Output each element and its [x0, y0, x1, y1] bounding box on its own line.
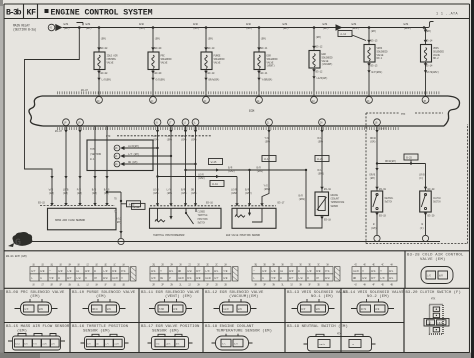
wire L/Y to TCM [125, 155, 172, 157]
TPS closed throttle switch [186, 208, 196, 224]
neutral switch box [371, 191, 383, 212]
wire LG/B(EM) to mass air flow sensor [65, 126, 67, 205]
svg-text:(EM): (EM) [64, 26, 70, 30]
svg-text:B3-15: B3-15 [38, 202, 45, 205]
svg-text:(EM): (EM) [96, 294, 106, 299]
svg-text:(EM): (EM) [318, 140, 324, 144]
connector drawing (2-pin oval) [421, 267, 453, 284]
solenoid coil symbol [205, 55, 207, 68]
thermistor symbol [318, 197, 325, 211]
svg-text:(EM): (EM) [77, 191, 83, 195]
svg-text:(EM): (EM) [208, 37, 214, 41]
svg-text:B/R: B/R [245, 188, 250, 192]
wire R/L(EM) to engine coolant temperature sensor [321, 126, 323, 192]
svg-text:B3-09: B3-09 [155, 47, 162, 50]
solenoid coil symbol [152, 55, 154, 68]
svg-text:DR/B: DR/B [370, 173, 376, 177]
arrow [184, 130, 187, 133]
svg-text:G/Y: G/Y [31, 269, 36, 273]
svg-text:W-1): W-1) [90, 157, 96, 161]
svg-text:L/R: L/R [307, 269, 312, 273]
ground joint connector pin [118, 238, 124, 244]
svg-text:(VACUUM): (VACUUM) [322, 62, 333, 66]
svg-text:B-3b: B-3b [6, 8, 22, 18]
solenoid coil symbol [258, 55, 260, 68]
connector mark and label B3-10 (bottom) [204, 71, 208, 74]
svg-text:LG/R: LG/R [223, 308, 229, 311]
svg-text:W/B: W/B [86, 22, 91, 26]
svg-text:W/R: W/R [49, 188, 54, 192]
svg-text:DR/B: DR/B [370, 136, 376, 140]
svg-text:(EM): (EM) [49, 191, 55, 195]
main relay feed arrow [55, 24, 62, 31]
connector ref box W-17 [262, 156, 276, 162]
wire return G/O(EM) to ECM [152, 70, 154, 97]
ECM pin 1P on bus bottom line [63, 119, 70, 126]
svg-text:LG/R: LG/R [153, 134, 159, 138]
solenoid valve B3-09 body [148, 52, 159, 70]
ECM bus right torn-edge squiggle [444, 96, 460, 126]
svg-text:(EM2): (EM2) [198, 176, 205, 180]
svg-text:(EM): (EM) [86, 26, 92, 30]
svg-text:BR/W: BR/W [92, 308, 98, 311]
svg-text:(EM): (EM) [116, 220, 122, 224]
svg-text:(EM): (EM) [181, 138, 187, 142]
scan corner top-left [0, 0, 3, 6]
svg-text:G/W: G/W [362, 276, 367, 280]
svg-text:LG/R(EM): LG/R(EM) [317, 76, 328, 80]
svg-text:(EM): (EM) [191, 191, 197, 195]
solenoid coil symbol [98, 55, 100, 68]
ECM connector 3X cells row1 [252, 267, 261, 274]
svg-text:(F): (F) [419, 176, 424, 180]
svg-text:EGR VALVE POSITION SENSOR: EGR VALVE POSITION SENSOR [226, 234, 261, 237]
svg-text:W/G: W/G [151, 269, 156, 273]
wire arrow [105, 176, 108, 179]
wire W/B power rail [63, 22, 434, 28]
wire L/Y(EM) bus to throttle position sensor [170, 126, 172, 206]
svg-text:VALVE: VALVE [107, 61, 114, 64]
junction to clutch switch branch [376, 162, 378, 164]
clutch switch box [420, 191, 432, 212]
svg-text:L/Y (EM): L/Y (EM) [128, 152, 139, 156]
wire drop to B3-13 VRIS SOLENOID VALVE NO.1 [368, 28, 370, 45]
svg-text:W/B: W/B [64, 22, 69, 26]
svg-text:L/O: L/O [205, 269, 210, 273]
wire B(F) to ground [425, 212, 427, 238]
svg-text:B3-07: B3-07 [379, 127, 386, 130]
svg-text:ENGINE CONTROL SYSTEM: ENGINE CONTROL SYSTEM [51, 9, 153, 18]
svg-text:COOLANT: COOLANT [331, 198, 340, 201]
connector mark and label B3-08 (bottom) [97, 71, 101, 74]
ECM pin 2N on bus bottom line [319, 119, 326, 126]
wire LG/R(EM) bus to throttle position sensor [157, 126, 159, 206]
svg-text:B3-11: B3-11 [261, 47, 268, 50]
return arrow [204, 78, 207, 81]
svg-text:(F): (F) [420, 226, 425, 230]
ECM connector 2X cells row2 [150, 274, 159, 281]
ECM pin 1J on bus bottom line [182, 119, 189, 126]
svg-text:LG/R(EM): LG/R(EM) [128, 144, 139, 148]
svg-text:G/R: G/R [58, 269, 63, 273]
connector mark and label B3-14 (top) [424, 40, 428, 43]
ECM bus top line [42, 95, 448, 97]
svg-text:THROTTLE POSITIONSENSOR: THROTTLE POSITIONSENSOR [153, 234, 185, 237]
svg-text:LG/R: LG/R [153, 188, 159, 192]
svg-text:B3-19: B3-19 [379, 215, 386, 218]
wire B(EM) to ground [376, 212, 378, 238]
wire DB(EM) bus to throttle position sensor [195, 126, 197, 206]
ECM pin 4D on bus top line [96, 97, 103, 104]
svg-text:W/B: W/B [323, 22, 328, 26]
wire arrow [93, 176, 96, 179]
svg-text:GY/B(EM2): GY/B(EM2) [427, 70, 440, 74]
ECM pin 4K on bus top line [366, 97, 373, 104]
svg-text:B/R: B/R [228, 166, 233, 170]
svg-text:B3-10: B3-10 [208, 72, 215, 75]
svg-text:R/G: R/G [187, 276, 192, 280]
svg-text:G/Y: G/Y [214, 276, 219, 280]
svg-text:LR/B: LR/B [419, 173, 425, 177]
connector mark and label B3-13 (bottom) [367, 63, 371, 66]
connector mark and label B3-11 (top) [257, 47, 261, 50]
svg-text:G/B: G/B [40, 269, 45, 273]
svg-text:TEMPERATURE: TEMPERATURE [331, 201, 345, 204]
svg-text:LB/R: LB/R [178, 276, 184, 280]
svg-text:W-25: W-25 [211, 161, 217, 164]
svg-text:B3-17: B3-17 [278, 201, 285, 204]
wire drop to B3-10 PURGE SOLENOID VALVE [205, 28, 207, 53]
connector mark and label B3-12 (top) [312, 46, 316, 49]
svg-text:(EM): (EM) [17, 328, 27, 333]
solenoid valve B3-12 body [309, 51, 320, 69]
svg-text:L/W: L/W [298, 276, 303, 280]
svg-text:SWITCH: SWITCH [433, 201, 441, 204]
svg-text:DR/B: DR/B [320, 343, 326, 346]
connector pin mark [194, 203, 197, 206]
svg-text:VALVE (EM): VALVE (EM) [420, 257, 445, 262]
connector mark and label B3-08 (top) [97, 47, 101, 50]
connector pin mark [184, 203, 187, 206]
TCM pin 2K [114, 145, 120, 151]
svg-text:W/B: W/B [246, 22, 251, 26]
svg-text:1 1 ..ATA: 1 1 ..ATA [436, 13, 458, 17]
rail junction dot [98, 26, 101, 29]
svg-text:W/B: W/B [196, 276, 201, 280]
wire B/R(EM2) branch [186, 169, 307, 171]
B3-15 MAF connector drawing [13, 336, 61, 350]
svg-text:SWITCH: SWITCH [385, 201, 393, 204]
svg-text:VALVE: VALVE [161, 61, 168, 64]
connector strip B3-17 [231, 205, 276, 207]
svg-text:LG/B: LG/B [63, 188, 69, 192]
svg-text:B3-10: B3-10 [208, 47, 215, 50]
ground joint pin [374, 235, 380, 241]
svg-text:G/R: G/R [262, 269, 267, 273]
rail junction dot [368, 26, 371, 29]
svg-text:B3-14: B3-14 [426, 64, 433, 67]
rail junction dot [152, 26, 155, 29]
svg-text:(EM2): (EM2) [318, 172, 325, 176]
svg-text:B3-20: B3-20 [428, 215, 435, 218]
svg-text:(EM): (EM) [323, 26, 329, 30]
svg-text:(EM): (EM) [101, 37, 107, 41]
svg-text:B/R: B/R [257, 166, 262, 170]
svg-text:W-24: W-24 [317, 158, 323, 161]
connector strip B3-16 [150, 205, 221, 207]
svg-text:B/R: B/R [92, 188, 97, 192]
svg-text:B3-16: B3-16 [206, 201, 213, 204]
svg-text:L/O: L/O [380, 276, 385, 280]
connector mark B3-18 bottom [320, 217, 323, 220]
B3-18 ECT connector drawing [216, 336, 249, 350]
wire B/R(EM) bus to throttle position sensor [185, 126, 187, 206]
wire B/R(EM) to mass air flow sensor [94, 126, 96, 205]
svg-text:(EM2): (EM2) [299, 197, 306, 201]
svg-text:L/B: L/B [67, 269, 72, 273]
ECM connector 1X cells row1 [30, 267, 39, 274]
svg-text:G/O(EM): G/O(EM) [156, 78, 166, 82]
svg-text:B-25: B-25 [406, 157, 412, 160]
connector ref box W-18 (left of TPS) [132, 203, 146, 209]
svg-text:(EM2): (EM2) [264, 187, 271, 191]
svg-text:B/Y: B/Y [289, 276, 294, 280]
box B3-28 cold air control valve [404, 251, 406, 288]
EGR pos potentiometer [235, 208, 250, 217]
svg-text:B3-07: B3-07 [81, 89, 88, 92]
svg-text:R/L: R/L [222, 343, 227, 346]
svg-text:POSITION: POSITION [198, 218, 209, 221]
svg-text:B3-13: B3-13 [371, 39, 378, 42]
ground symbol G [12, 232, 32, 246]
svg-text:LG/R: LG/R [198, 172, 204, 176]
wire return LG/R(EM) to ECM [313, 68, 315, 96]
svg-text:B3-08: B3-08 [101, 47, 108, 50]
connector mark and label B3-13 (top) [367, 40, 371, 43]
svg-text:Y/R: Y/R [271, 276, 276, 280]
svg-text:(EM): (EM) [155, 37, 161, 41]
svg-text:SWITCH: SWITCH [198, 221, 206, 224]
B3-17 EGR pos connector drawing [152, 337, 189, 350]
svg-text:(EM2): (EM2) [245, 191, 252, 195]
svg-text:(VENT): (VENT) [267, 64, 276, 68]
svg-text:MTX: MTX [401, 113, 406, 116]
rail junction dot [258, 26, 261, 29]
svg-text:(VENT) (EM): (VENT) (EM) [165, 294, 192, 299]
solenoid valve B3-14 body [421, 45, 432, 63]
ECM connector 2X cells row1 [150, 267, 159, 274]
connector pin mark [64, 203, 67, 206]
svg-text:(EM): (EM) [181, 191, 187, 195]
svg-text:LG/R: LG/R [231, 188, 237, 192]
svg-text:SENSOR (EM): SENSOR (EM) [83, 328, 110, 333]
connector ref box W-18b [210, 181, 224, 187]
svg-text:B3-08: B3-08 [101, 72, 108, 75]
svg-text:MASS AIR FLOW SENSOR: MASS AIR FLOW SENSOR [55, 219, 85, 222]
svg-text:(EM): (EM) [193, 26, 199, 30]
svg-text:B/P(EM2): B/P(EM2) [372, 70, 383, 74]
svg-text:(EM): (EM) [370, 140, 376, 144]
svg-text:ECM: ECM [249, 109, 254, 113]
svg-text:NEUTRAL: NEUTRAL [385, 197, 394, 200]
svg-text:(EM): (EM) [191, 138, 197, 142]
solenoid valve B3-08 body [94, 52, 105, 70]
ECM bus left torn-edge squiggle [29, 96, 43, 126]
separator line [4, 250, 470, 252]
connector ref box B-25 [404, 154, 418, 160]
rail junction dot [313, 26, 316, 29]
ECM pin 4F on bus top line [203, 97, 210, 104]
svg-text:(EM): (EM) [30, 294, 40, 299]
connector mark and label B3-12 (bottom) [312, 69, 316, 72]
svg-text:W/L: W/L [389, 276, 394, 280]
return arrow [312, 76, 315, 79]
TCM pin arrow [120, 162, 124, 166]
svg-text:Y/BR(EM): Y/BR(EM) [262, 78, 273, 82]
arrow + label [375, 168, 378, 171]
svg-text:(EM2): (EM2) [257, 169, 264, 173]
scan edge right black band [471, 0, 474, 358]
svg-text:B3-18: B3-18 [324, 188, 331, 191]
rail tick mark [77, 23, 84, 26]
svg-text:R/B: R/B [316, 269, 321, 273]
wire drop to B3-12 EGR SOLENOID VALVE (VACUUM) [313, 28, 315, 51]
svg-text:W-18: W-18 [212, 183, 218, 186]
ground joint pin [422, 235, 428, 241]
svg-text:W-17: W-17 [264, 158, 270, 161]
svg-text:LG/B: LG/B [205, 276, 211, 280]
solenoid coil symbol [313, 54, 315, 67]
TCM pin 2I [114, 153, 120, 159]
svg-text:W/B: W/B [283, 22, 288, 26]
connector mark and label B3-14 (bottom) [424, 63, 428, 66]
B3-16 TPS connector drawing [85, 337, 125, 350]
connector pin mark [156, 203, 159, 206]
svg-text:B3-15 MASS AIR FLOW SENSOR: B3-15 MASS AIR FLOW SENSOR [6, 325, 70, 329]
wire return Y/BR(EM) to ECM [258, 70, 260, 97]
svg-text:R/L: R/L [318, 136, 323, 140]
svg-text:CLOSED: CLOSED [198, 211, 206, 214]
svg-text:W/R: W/R [85, 269, 90, 273]
svg-text:B3-11: B3-11 [261, 72, 268, 75]
svg-text:(EM): (EM) [265, 140, 271, 144]
ECM pin 4E on bus top line [256, 97, 263, 104]
ECM pin 2L on bus bottom line [266, 119, 273, 126]
ground wire [30, 241, 440, 243]
TCM pin arrow [120, 146, 124, 150]
svg-text:B/W: B/W [103, 276, 108, 280]
svg-text:KF: KF [27, 9, 37, 18]
svg-text:B/Y: B/Y [67, 276, 72, 280]
wire return B/P(EM2) to ECM [368, 62, 370, 96]
rail junction dot [205, 26, 208, 29]
svg-text:W/L: W/L [214, 269, 219, 273]
wire DB to TCM [125, 163, 196, 165]
svg-text:BR/W(EM): BR/W(EM) [209, 78, 220, 82]
svg-text:G/W: G/W [187, 269, 192, 273]
svg-text:Y/G: Y/G [265, 136, 270, 140]
wire B/R(EM2) ECT ground return [306, 170, 322, 228]
svg-text:R/Y: R/Y [371, 276, 376, 280]
arrow [169, 130, 172, 133]
connector mark B3-18 top [320, 187, 323, 190]
wire arrow [78, 176, 81, 179]
connector pin mark [78, 203, 81, 206]
rail junction dot [423, 26, 426, 29]
svg-text:(EM): (EM) [283, 26, 289, 30]
svg-text:B/W: B/W [325, 276, 330, 280]
svg-text:W/B: W/B [404, 22, 409, 26]
svg-text:G/B: G/B [223, 276, 228, 280]
svg-text:W-18: W-18 [134, 206, 140, 209]
svg-text:SENSOR (EM): SENSOR (EM) [152, 328, 179, 333]
svg-text:W/B: W/B [193, 22, 198, 26]
svg-text:W/R: W/R [289, 269, 294, 273]
ECM pin 1B on bus bottom line [374, 119, 381, 126]
ECM connector hatch strip (top) [57, 91, 441, 94]
svg-text:ENGINE: ENGINE [331, 194, 339, 197]
svg-text:(EM): (EM) [371, 29, 377, 33]
svg-text:NO.2 (EM): NO.2 (EM) [367, 294, 389, 299]
TPS potentiometer [155, 208, 165, 222]
ECM connector 4X cells row1 [352, 267, 361, 274]
wire drop to B3-09 PRC SOLENOID VALVE [152, 28, 154, 53]
solenoid coil symbol [424, 48, 426, 61]
ECM pin 1R on bus bottom line [77, 119, 84, 126]
svg-text:(EM): (EM) [261, 37, 267, 41]
svg-text:W/G: W/G [371, 269, 376, 273]
solenoid valve B3-13 body [364, 45, 375, 63]
svg-text:(EM2): (EM2) [404, 26, 412, 30]
return arrow [97, 78, 100, 81]
connector mark and label B3-09 (bottom) [151, 71, 155, 74]
svg-text:G/O: G/O [151, 276, 156, 280]
svg-text:(EM): (EM) [63, 191, 69, 195]
ECM connector 3X cells row2 [252, 274, 261, 281]
svg-text:W/B: W/B [139, 22, 144, 26]
svg-text:BTN: BTN [106, 135, 111, 138]
svg-text:DB (EM): DB (EM) [128, 160, 138, 164]
wire return GY/B(EM2) to ECM [425, 62, 427, 96]
svg-text:B/R: B/R [181, 188, 186, 192]
wire return BR/W(EM) to ECM [205, 70, 207, 97]
wire LG/R(EM2) branch [158, 177, 238, 206]
connector pin mark [169, 203, 172, 206]
svg-text:DR/B(EM): DR/B(EM) [385, 159, 396, 163]
svg-text:B/R: B/R [181, 134, 186, 138]
svg-text:Y/G: Y/G [264, 184, 269, 188]
svg-text:R/B: R/B [112, 269, 117, 273]
connector pin mark [50, 203, 53, 206]
wire Y/G from ECM pin [262, 126, 269, 206]
solenoid valve B3-10 body [201, 52, 212, 70]
svg-text:R/Y: R/Y [196, 269, 201, 273]
svg-text:(EM2): (EM2) [352, 26, 360, 30]
ECM connector 1X cells row2 [30, 274, 39, 281]
svg-text:LG/R: LG/R [353, 269, 359, 273]
wire drop to B3-14 VRIS SOLENOID VALVE NO.2 [425, 28, 427, 45]
connector ref box W-25 [209, 159, 223, 165]
svg-text:(EM): (EM) [316, 35, 322, 39]
engine coolant temperature sensor box [315, 192, 329, 216]
svg-text:B3-09: B3-09 [155, 72, 162, 75]
svg-text:THROTTLE: THROTTLE [198, 214, 209, 217]
svg-text:Y/BR: Y/BR [159, 308, 165, 311]
svg-text:B/R: B/R [299, 194, 304, 198]
svg-text:W/B: W/B [352, 22, 357, 26]
TCM box [87, 140, 153, 171]
arrow [194, 130, 197, 133]
